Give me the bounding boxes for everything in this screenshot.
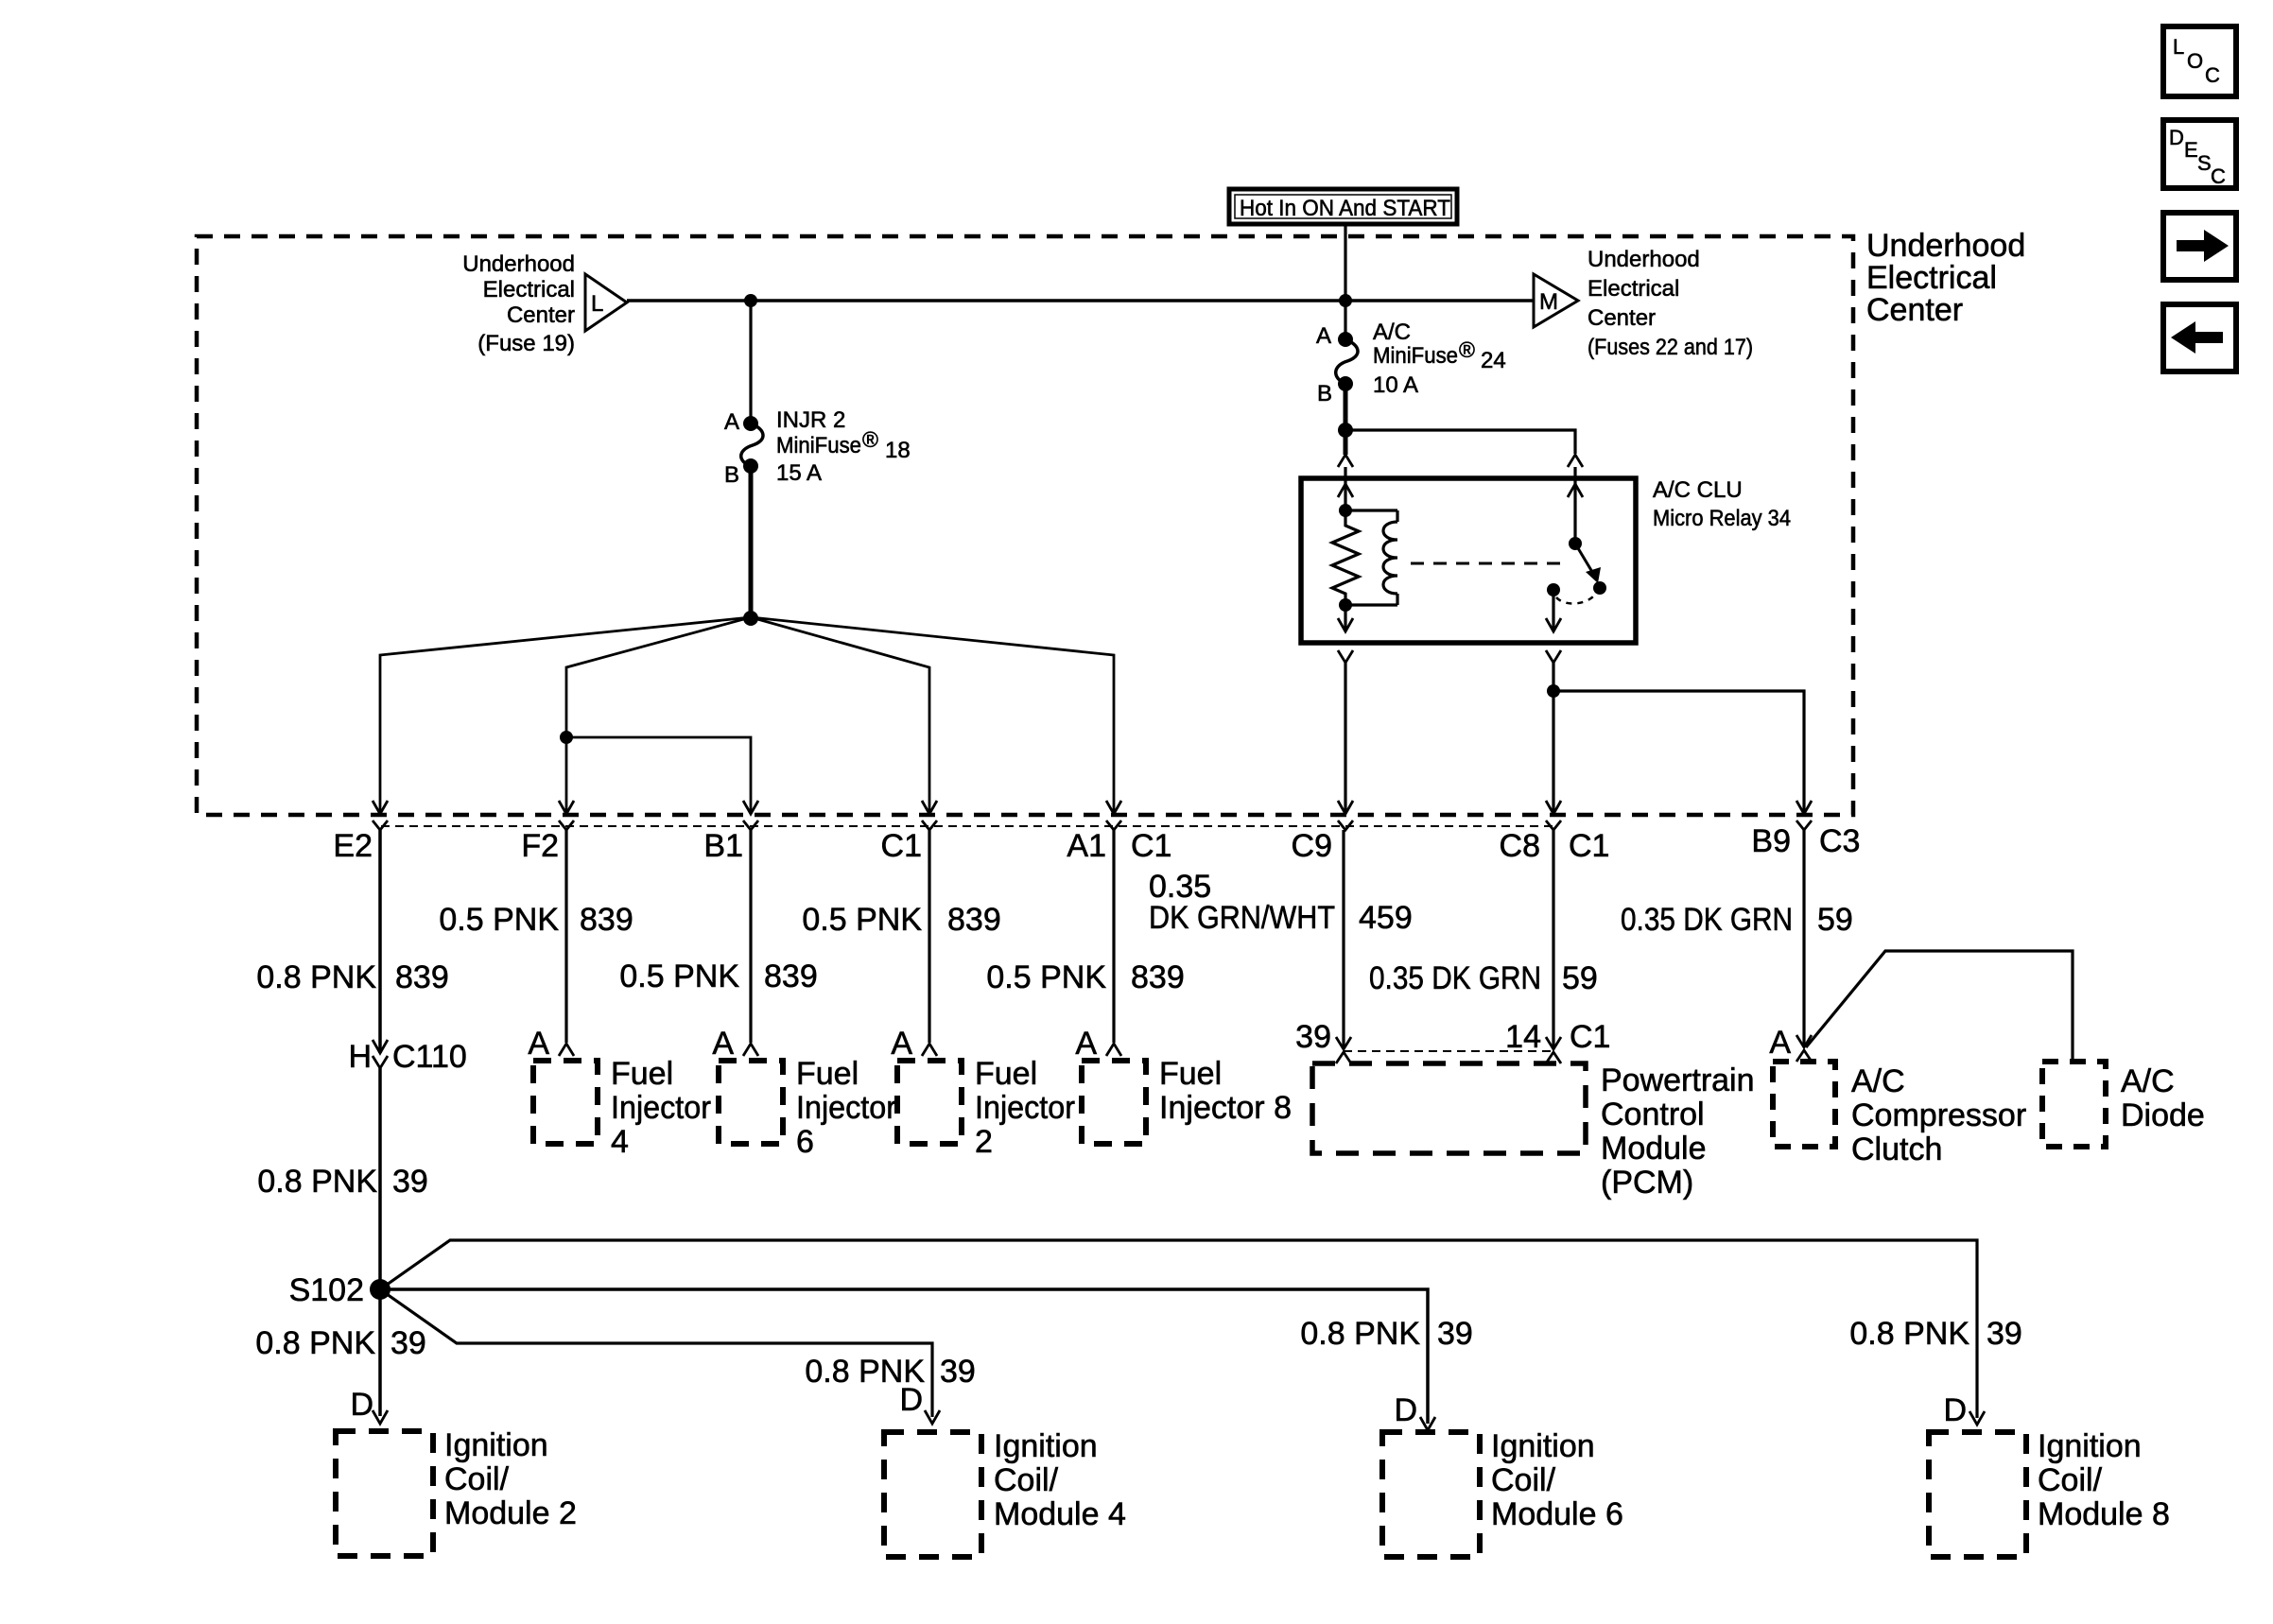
svg-text:E2: E2 bbox=[333, 828, 373, 864]
svg-text:D: D bbox=[1943, 1392, 1967, 1428]
svg-text:Ignition: Ignition bbox=[2038, 1428, 2142, 1464]
arrow into module 2 bbox=[373, 1410, 388, 1424]
svg-text:A1: A1 bbox=[1067, 828, 1106, 864]
svg-text:Module 2: Module 2 bbox=[444, 1495, 577, 1531]
svg-text:Control: Control bbox=[1601, 1097, 1705, 1132]
svg-text:Diode: Diode bbox=[2121, 1097, 2205, 1133]
svg-text:Coil/: Coil/ bbox=[2038, 1462, 2103, 1498]
svg-text:(PCM): (PCM) bbox=[1601, 1165, 1693, 1201]
connector chevron left above relay bbox=[1338, 455, 1353, 467]
wire B9 to clutch bbox=[1802, 830, 1805, 1047]
wire label 0.5 PNK 839 (A1) bbox=[986, 959, 1184, 995]
underhood electrical center dashed box bbox=[197, 236, 1853, 815]
relay mech dashed link bbox=[1411, 562, 1562, 565]
svg-text:59: 59 bbox=[1562, 960, 1598, 996]
wire label 0.8 PNK 39 upper bbox=[257, 1164, 427, 1200]
svg-text:Coil/: Coil/ bbox=[1491, 1462, 1556, 1498]
svg-text:14: 14 bbox=[1505, 1019, 1541, 1055]
svg-text:A: A bbox=[724, 409, 739, 435]
svg-text:D: D bbox=[1394, 1392, 1417, 1428]
svg-text:39: 39 bbox=[1987, 1316, 2022, 1352]
wire C9 to PCM bbox=[1342, 830, 1345, 1049]
connector fork E2 bbox=[373, 821, 388, 830]
svg-text:C: C bbox=[2211, 164, 2226, 188]
connector fork C9 bbox=[1338, 821, 1353, 830]
svg-text:C: C bbox=[2205, 63, 2220, 87]
connector fork below relay left bbox=[1338, 650, 1353, 663]
svg-text:C9: C9 bbox=[1292, 828, 1332, 864]
svg-text:18: 18 bbox=[885, 438, 911, 463]
svg-text:MiniFuse: MiniFuse bbox=[1373, 343, 1458, 369]
svg-text:24: 24 bbox=[1481, 348, 1506, 373]
svg-text:C110: C110 bbox=[392, 1039, 467, 1075]
svg-text:Injector: Injector bbox=[975, 1090, 1075, 1126]
svg-text:39: 39 bbox=[1437, 1316, 1473, 1352]
svg-text:Module 4: Module 4 bbox=[994, 1496, 1126, 1532]
wire label 0.5 PNK 839 (C1) bbox=[802, 902, 1000, 938]
A/C diode bbox=[2042, 1062, 2205, 1147]
svg-text:(Fuse 19): (Fuse 19) bbox=[477, 331, 575, 356]
svg-text:Ignition: Ignition bbox=[444, 1427, 548, 1463]
fuse INJR2 MiniFuse 18 15A bbox=[724, 407, 911, 488]
A/C compressor clutch bbox=[1773, 1062, 2026, 1167]
wire fan to A1 bbox=[751, 617, 1114, 811]
fuel injector 2 bbox=[897, 1056, 1075, 1160]
wire C8 to PCM bbox=[1552, 830, 1554, 1049]
nav icon right arrow bbox=[2163, 213, 2236, 280]
wire fan to C1 bbox=[751, 617, 929, 811]
svg-text:0.8 PNK: 0.8 PNK bbox=[256, 959, 376, 995]
svg-text:H: H bbox=[348, 1039, 372, 1075]
svg-text:0.5 PNK: 0.5 PNK bbox=[439, 902, 559, 938]
svg-text:839: 839 bbox=[947, 902, 1001, 938]
svg-text:L: L bbox=[2173, 35, 2184, 59]
svg-text:A/C CLU: A/C CLU bbox=[1653, 477, 1743, 503]
wire hot to A/C fuse bbox=[1344, 223, 1346, 339]
wire label 0.8 PNK 839 (E2) bbox=[256, 959, 448, 995]
svg-text:0.8 PNK: 0.8 PNK bbox=[1300, 1316, 1420, 1352]
svg-text:39: 39 bbox=[940, 1354, 976, 1390]
connector fork B9 bbox=[1796, 821, 1812, 830]
svg-text:Injector 8: Injector 8 bbox=[1159, 1090, 1292, 1126]
svg-text:Fuel: Fuel bbox=[796, 1056, 859, 1092]
svg-text:A: A bbox=[891, 1026, 912, 1062]
svg-text:S: S bbox=[2197, 151, 2212, 175]
nav icon left arrow bbox=[2163, 304, 2236, 371]
svg-text:10 A: 10 A bbox=[1373, 372, 1418, 398]
connector fork C8 bbox=[1546, 821, 1561, 830]
connector fork F2 bbox=[559, 821, 574, 830]
nav icon box LOC bbox=[2163, 26, 2236, 96]
svg-text:Compressor: Compressor bbox=[1851, 1097, 2026, 1133]
relay switch bbox=[1546, 467, 1606, 631]
svg-text:0.8 PNK: 0.8 PNK bbox=[255, 1325, 375, 1361]
svg-text:Underhood: Underhood bbox=[1866, 228, 2025, 264]
svg-text:6: 6 bbox=[796, 1124, 814, 1160]
connector C110 inline bbox=[348, 1039, 466, 1075]
svg-text:C1: C1 bbox=[881, 828, 922, 864]
svg-text:D: D bbox=[350, 1387, 373, 1423]
wire label 0.5 PNK 839 (F2) bbox=[439, 902, 633, 938]
junction main/AC bbox=[1339, 294, 1352, 307]
svg-text:Coil/: Coil/ bbox=[994, 1462, 1059, 1498]
svg-text:Micro Relay 34: Micro Relay 34 bbox=[1653, 506, 1791, 531]
relay coil return wire bbox=[1344, 605, 1346, 631]
hot in on and start box bbox=[1229, 189, 1457, 224]
svg-text:MiniFuse: MiniFuse bbox=[776, 433, 861, 458]
junction main/INJR2 bbox=[744, 294, 757, 307]
thin connector dashed line bbox=[381, 825, 1553, 827]
svg-text:4: 4 bbox=[611, 1124, 629, 1160]
wire E2 down bbox=[378, 830, 382, 1053]
wire A1 to injector 8 bbox=[1112, 830, 1115, 1043]
junction AC branch bbox=[1338, 423, 1353, 438]
wire label 0.5 PNK 839 (B1) bbox=[619, 959, 817, 994]
svg-text:A/C: A/C bbox=[1373, 320, 1411, 345]
arrow up inside relay left bbox=[1338, 484, 1353, 497]
thin dashed PCM connector line bbox=[1344, 1050, 1553, 1052]
wire C1 to injector 2 bbox=[928, 830, 930, 1043]
PCM powertrain control module bbox=[1312, 1063, 1755, 1201]
svg-text:Powertrain: Powertrain bbox=[1601, 1063, 1755, 1098]
svg-text:839: 839 bbox=[764, 959, 818, 994]
relay coil feed wire bbox=[1344, 467, 1346, 510]
wire label 0.35 DK GRN 59 (C8) bbox=[1369, 960, 1598, 996]
wire diode link bbox=[1806, 951, 2073, 1060]
wire relay switch to junction bbox=[1552, 663, 1554, 811]
svg-text:Hot In ON And START: Hot In ON And START bbox=[1240, 196, 1450, 221]
wire relay to C9 arrow bbox=[1344, 663, 1346, 811]
wire C110 to S102 bbox=[378, 1068, 382, 1416]
svg-text:39: 39 bbox=[392, 1164, 428, 1200]
svg-text:0.35 DK GRN: 0.35 DK GRN bbox=[1369, 960, 1541, 996]
svg-text:Ignition: Ignition bbox=[1491, 1428, 1595, 1464]
fan junction bbox=[743, 611, 758, 626]
svg-text:A: A bbox=[1769, 1025, 1791, 1061]
connector fork A1 bbox=[1106, 821, 1121, 830]
splice S102 bbox=[289, 1272, 390, 1308]
svg-text:839: 839 bbox=[1131, 959, 1185, 995]
svg-text:C1: C1 bbox=[1131, 828, 1171, 864]
node M triangle (Underhood Electrical Center Fuses 22 and 17) bbox=[1534, 247, 1753, 360]
svg-text:C1: C1 bbox=[1570, 1019, 1610, 1055]
resistor relay bbox=[1332, 510, 1359, 605]
svg-text:S102: S102 bbox=[289, 1272, 364, 1308]
svg-text:Fuel: Fuel bbox=[1159, 1056, 1222, 1092]
svg-text:Underhood: Underhood bbox=[462, 251, 575, 277]
svg-text:Center: Center bbox=[507, 302, 575, 328]
svg-text:839: 839 bbox=[395, 959, 449, 995]
wire label 0.35 DK GRN 59 (B9) bbox=[1621, 902, 1853, 938]
svg-text:A: A bbox=[1316, 323, 1331, 349]
wire fan to F2 bbox=[566, 617, 751, 811]
svg-text:D: D bbox=[2169, 126, 2184, 149]
wire branch to switch side bbox=[1345, 430, 1575, 454]
connector chevron right above relay bbox=[1568, 455, 1583, 467]
wire main to fuse INJR2 bbox=[749, 301, 752, 423]
svg-text:INJR 2: INJR 2 bbox=[776, 407, 845, 433]
ignition coil module 6 bbox=[1382, 1428, 1623, 1557]
svg-text:A/C: A/C bbox=[2121, 1063, 2175, 1099]
wire label 0.35 DK GRN/WHT 459 (C9) bbox=[1149, 869, 1413, 936]
connector fork below relay right bbox=[1546, 650, 1561, 663]
svg-text:839: 839 bbox=[580, 902, 633, 938]
svg-text:Clutch: Clutch bbox=[1851, 1132, 1942, 1167]
fuel injector 4 bbox=[533, 1056, 711, 1160]
wire B1 tap bbox=[566, 737, 751, 811]
svg-text:59: 59 bbox=[1817, 902, 1853, 938]
svg-text:0.5 PNK: 0.5 PNK bbox=[986, 959, 1106, 995]
svg-text:0.5 PNK: 0.5 PNK bbox=[619, 959, 739, 994]
svg-text:0.35 DK GRN: 0.35 DK GRN bbox=[1621, 902, 1793, 938]
svg-text:0.8 PNK: 0.8 PNK bbox=[257, 1164, 377, 1200]
ignition coil module 8 bbox=[1929, 1428, 2170, 1557]
svg-text:Module 6: Module 6 bbox=[1491, 1496, 1623, 1532]
svg-text:B: B bbox=[1317, 381, 1332, 406]
relay A/C CLU Micro Relay 34 bbox=[1301, 477, 1791, 643]
svg-text:Fuel: Fuel bbox=[975, 1056, 1037, 1092]
svg-text:Center: Center bbox=[1588, 305, 1656, 331]
fuel injector 8 bbox=[1082, 1056, 1292, 1144]
junction F2/B1 tap bbox=[560, 731, 573, 744]
svg-text:M: M bbox=[1539, 289, 1558, 315]
svg-text:DK GRN/WHT: DK GRN/WHT bbox=[1149, 900, 1335, 936]
wire S102 bottom branch to module 4 bbox=[380, 1289, 932, 1417]
svg-text:A/C: A/C bbox=[1851, 1063, 1905, 1099]
svg-text:C3: C3 bbox=[1819, 823, 1860, 859]
svg-text:®: ® bbox=[1459, 337, 1475, 362]
svg-text:O: O bbox=[2187, 49, 2203, 73]
svg-text:C8: C8 bbox=[1500, 828, 1540, 864]
svg-text:Injector: Injector bbox=[796, 1090, 896, 1126]
svg-text:F2: F2 bbox=[521, 828, 559, 864]
svg-text:B1: B1 bbox=[703, 828, 743, 864]
connector fork B1 bbox=[743, 821, 758, 830]
svg-text:®: ® bbox=[862, 427, 878, 452]
svg-text:15 A: 15 A bbox=[776, 460, 822, 486]
wire fuse B down to branch junction bbox=[1344, 384, 1348, 455]
svg-text:Module 8: Module 8 bbox=[2038, 1496, 2170, 1532]
svg-text:Fuel: Fuel bbox=[611, 1056, 673, 1092]
connector fork C1 bbox=[922, 821, 937, 830]
svg-text:Electrical: Electrical bbox=[1866, 260, 1997, 296]
svg-text:D: D bbox=[899, 1382, 923, 1418]
svg-text:0.5 PNK: 0.5 PNK bbox=[802, 902, 922, 938]
svg-text:C1: C1 bbox=[1569, 828, 1609, 864]
wire F2 to injector 4 bbox=[564, 830, 567, 1043]
svg-text:A: A bbox=[528, 1026, 549, 1062]
wire fuse B to fan point bbox=[749, 466, 754, 618]
svg-text:Electrical: Electrical bbox=[1588, 276, 1679, 302]
svg-text:Electrical: Electrical bbox=[483, 277, 575, 302]
svg-text:459: 459 bbox=[1359, 900, 1413, 936]
svg-text:0.8 PNK: 0.8 PNK bbox=[1849, 1316, 1969, 1352]
node L triangle (Underhood Electrical Center Fuse 19) bbox=[462, 251, 627, 356]
junction C8/B9 bbox=[1547, 684, 1560, 698]
svg-text:L: L bbox=[591, 291, 603, 317]
wire to B9 bbox=[1553, 691, 1804, 811]
wire label 0.8 PNK 39 (module2) bbox=[255, 1325, 425, 1361]
svg-text:A: A bbox=[1075, 1026, 1097, 1062]
svg-text:Center: Center bbox=[1866, 292, 1963, 328]
svg-text:39: 39 bbox=[1295, 1019, 1331, 1055]
wire label 0.8 PNK 39 (module8) bbox=[1849, 1316, 2021, 1352]
wire S102 top branch to module 8 bbox=[380, 1240, 1977, 1418]
ignition coil module 4 bbox=[884, 1428, 1126, 1557]
relay coil bbox=[1345, 510, 1397, 605]
svg-text:Underhood: Underhood bbox=[1588, 247, 1700, 272]
wire S102 mid branch to module 6 bbox=[380, 1289, 1428, 1424]
svg-text:E: E bbox=[2184, 138, 2198, 162]
svg-text:B: B bbox=[724, 462, 739, 488]
svg-text:A: A bbox=[712, 1026, 734, 1062]
wire label 0.8 PNK 39 (module6) bbox=[1300, 1316, 1472, 1352]
wire main feed L to M bbox=[627, 299, 1534, 302]
arrow down inside relay left bottom bbox=[1338, 618, 1353, 631]
svg-text:B9: B9 bbox=[1751, 823, 1791, 859]
nav icon box DESC bbox=[2163, 120, 2236, 188]
svg-text:Injector: Injector bbox=[611, 1090, 711, 1126]
wire B1 to injector 6 bbox=[749, 830, 752, 1043]
label underhood electrical center (right) bbox=[1866, 228, 2025, 328]
fuse A/C MiniFuse 24 10A bbox=[1316, 320, 1506, 406]
svg-text:Coil/: Coil/ bbox=[444, 1461, 510, 1497]
wire fan to E2 bbox=[380, 617, 751, 811]
svg-text:(Fuses 22 and 17): (Fuses 22 and 17) bbox=[1588, 335, 1753, 360]
svg-text:39: 39 bbox=[390, 1325, 426, 1361]
wire label 0.8 PNK 39 (module4) bbox=[805, 1354, 975, 1390]
svg-text:2: 2 bbox=[975, 1124, 993, 1160]
svg-text:Module: Module bbox=[1601, 1131, 1707, 1166]
fuel injector 6 bbox=[719, 1056, 896, 1160]
svg-text:Ignition: Ignition bbox=[994, 1428, 1098, 1464]
ignition coil module 2 bbox=[336, 1427, 577, 1556]
